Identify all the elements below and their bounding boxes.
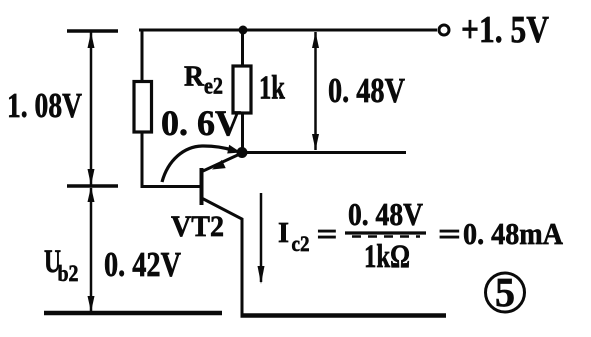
- transistor VT2 emitter arrow (PNP): [212, 160, 226, 170]
- svg-text:b2: b2: [58, 261, 79, 286]
- wire: left branch vertical lower + base wire: [142, 132, 201, 187]
- circled number 5: [486, 273, 525, 312]
- svg-text:0. 6V: 0. 6V: [161, 103, 241, 143]
- svg-text:1k: 1k: [259, 70, 285, 107]
- svg-text:I: I: [278, 218, 289, 249]
- svg-text:0. 48mA: 0. 48mA: [463, 216, 564, 251]
- node: top junction dot: [239, 26, 248, 35]
- arrowhead down Ic2: [258, 266, 265, 284]
- arrowhead down at middle tick: [88, 169, 95, 186]
- transistor VT2 collector diagonal: [202, 198, 243, 316]
- fraction bar: [345, 231, 426, 234]
- svg-text:=: =: [317, 216, 338, 251]
- arrowhead up at top tick: [88, 32, 95, 48]
- dimension line: 0.42V: [90, 188, 93, 312]
- svg-text:0. 42V: 0. 42V: [104, 245, 181, 284]
- svg-text:e2: e2: [204, 74, 223, 99]
- resistor Re2 body: [233, 66, 251, 113]
- svg-text:0. 48V: 0. 48V: [328, 71, 405, 110]
- fraction bar dashes: [352, 235, 420, 238]
- dimension line: 1.08V: [90, 32, 93, 186]
- dimension tick: top left: [67, 29, 118, 33]
- resistor R1 (bias) body: [134, 82, 152, 133]
- svg-text:5: 5: [495, 269, 515, 315]
- current arrow: Ic2: [260, 193, 263, 282]
- curved arrow: 0.6V base-emitter: [162, 146, 233, 182]
- wire: left branch vertical upper: [141, 29, 144, 83]
- svg-text:1kΩ: 1kΩ: [364, 239, 410, 275]
- node: emitter junction dot: [237, 147, 248, 158]
- svg-text:=: =: [438, 216, 461, 251]
- arrowhead up below middle tick: [88, 187, 95, 203]
- wire: top +1.5V rail: [139, 29, 437, 32]
- arrowhead up at top rail: [312, 32, 319, 48]
- svg-text:+1. 5V: +1. 5V: [461, 9, 549, 51]
- wire: bottom left reference line: [44, 311, 222, 316]
- arrowhead down at emitter rail: [312, 134, 319, 150]
- svg-text:1. 08V: 1. 08V: [7, 86, 82, 125]
- wire: bottom right rail: [241, 313, 447, 318]
- svg-text:0. 48V: 0. 48V: [348, 196, 423, 232]
- dimension arrow: 0.48V (both ends): [314, 32, 317, 150]
- transistor VT2 emitter diagonal: [203, 153, 242, 171]
- terminal: +1.5V open circle: [439, 25, 449, 35]
- arrowhead down at bottom line: [88, 296, 95, 312]
- wire: Re2 lower to emitter node: [241, 113, 244, 152]
- svg-text:R: R: [184, 61, 205, 93]
- dimension tick: middle left (base level): [67, 184, 118, 188]
- svg-text:VT2: VT2: [171, 210, 224, 243]
- curved arrow head: [227, 145, 241, 154]
- transistor VT2 base bar: [200, 168, 204, 205]
- svg-text:c2: c2: [292, 231, 310, 256]
- wire: Re2 vertical upper: [241, 30, 244, 67]
- wire: emitter rail to the right: [242, 151, 406, 154]
